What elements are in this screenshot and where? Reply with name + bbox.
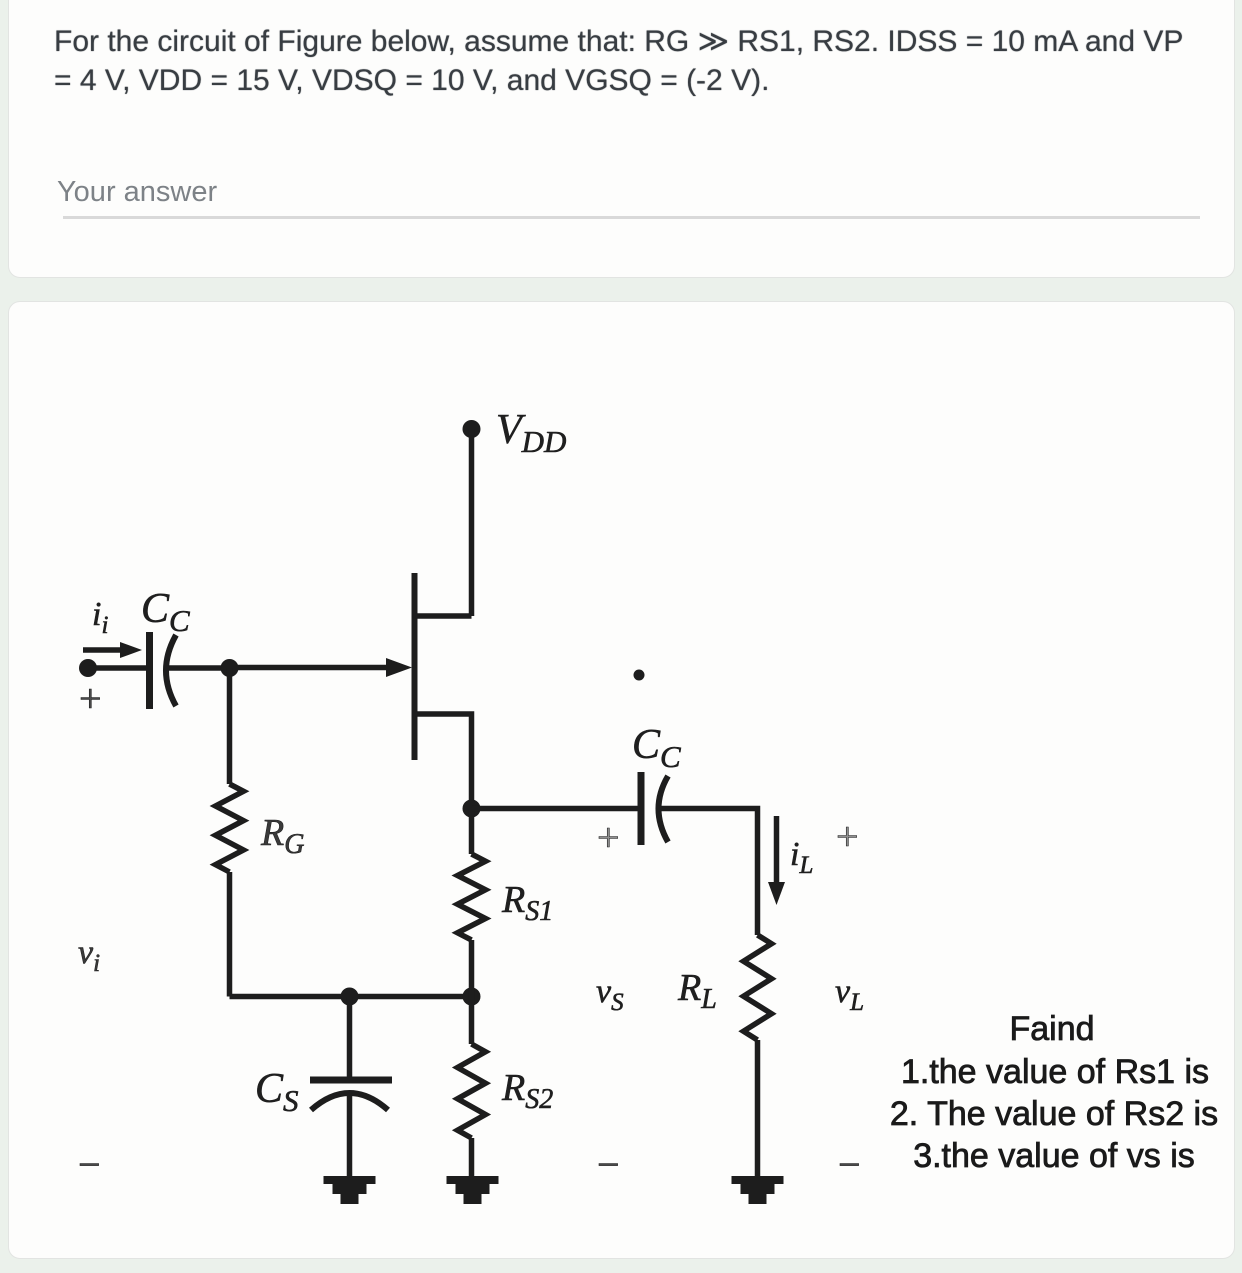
wire RS1 bottom lead	[469, 940, 475, 997]
svg-text:VDD: VDD	[496, 407, 566, 459]
svg-text:RL: RL	[677, 967, 717, 1015]
node RS junction dot	[463, 988, 481, 1006]
svg-text:CS: CS	[255, 1066, 299, 1118]
svg-text:3.the value of vs is: 3.the value of vs is	[913, 1137, 1195, 1175]
wire RS2 bottom lead	[469, 1138, 475, 1178]
wire capacitor to gate junction	[166, 665, 230, 671]
svg-text:vi: vi	[78, 934, 100, 977]
wire VDD vertical to drain	[469, 429, 475, 616]
resistor RS2	[458, 1044, 486, 1138]
wire RG top lead	[227, 668, 233, 784]
node input terminal dot	[79, 659, 97, 677]
wire RS2 top lead	[469, 997, 475, 1045]
svg-text:1.the value of Rs1 is: 1.the value of Rs1 is	[901, 1053, 1209, 1091]
capacitor CC output left plate	[638, 772, 645, 845]
wire RL bottom lead	[755, 1040, 761, 1178]
ground RS2	[447, 1176, 499, 1204]
svg-text:Faind: Faind	[1009, 1010, 1094, 1048]
svg-text:vS: vS	[596, 973, 624, 1016]
svg-text:−: −	[838, 1142, 861, 1187]
wire input to capacitor	[88, 665, 146, 671]
transistor J1 channel bar	[412, 573, 418, 760]
svg-text:2. The value of Rs2 is: 2. The value of Rs2 is	[890, 1095, 1218, 1133]
node gate junction dot	[221, 659, 239, 677]
svg-text:CC: CC	[141, 586, 190, 638]
capacitor CC input right curved plate	[166, 635, 176, 706]
capacitor CC output right curved plate	[659, 776, 669, 842]
card: figure	[8, 301, 1235, 1259]
svg-text:−: −	[597, 1142, 620, 1187]
svg-text:RS2: RS2	[501, 1067, 553, 1115]
node floating dot	[634, 670, 645, 681]
wire CS bottom lead	[347, 1096, 353, 1178]
svg-text:RS1: RS1	[501, 879, 553, 927]
svg-text:RG: RG	[260, 812, 304, 860]
node CS junction dot	[341, 988, 359, 1006]
capacitor CC input left plate	[146, 632, 153, 709]
ground RL	[732, 1176, 784, 1204]
svg-text:+: +	[597, 815, 620, 860]
capacitor CS top plate	[310, 1077, 392, 1084]
wire source to output capacitor	[472, 806, 639, 812]
wire RS1 top lead	[469, 809, 475, 855]
svg-text:vL: vL	[835, 973, 864, 1016]
ground CS	[324, 1176, 376, 1204]
svg-text:−: −	[78, 1142, 101, 1187]
wire CS top lead	[347, 997, 353, 1080]
wire gate	[230, 665, 393, 671]
transistor J1 drain lead	[415, 613, 472, 619]
resistor RS1	[458, 854, 486, 940]
current iL arrow	[774, 816, 780, 886]
svg-text:+: +	[836, 814, 859, 859]
svg-text:iL: iL	[790, 836, 813, 879]
current ii arrow	[83, 647, 126, 653]
resistor RL	[744, 935, 772, 1040]
wire capacitor to RL corner	[658, 809, 758, 936]
node VDD terminal dot	[463, 420, 481, 438]
svg-text:ii: ii	[92, 596, 108, 639]
wire bottom horizontal	[230, 994, 472, 1000]
transistor J1 gate arrowhead	[386, 658, 412, 677]
capacitor CS bottom curved plate	[311, 1093, 388, 1110]
svg-text:+: +	[79, 676, 102, 721]
node source junction dot	[463, 800, 481, 818]
transistor J1 source lead	[415, 714, 472, 809]
svg-text:CC: CC	[632, 722, 681, 774]
card: question	[8, 0, 1235, 278]
wire RG bottom lead	[227, 872, 233, 997]
resistor RG	[216, 784, 244, 872]
